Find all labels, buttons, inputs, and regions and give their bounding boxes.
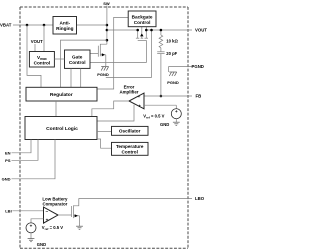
wire Gate Control to Regulator b <box>80 68 82 87</box>
svg-text:LBI: LBI <box>5 208 11 213</box>
svg-text:PS: PS <box>5 158 11 163</box>
op-amp U1 error amplifier <box>129 93 176 109</box>
svg-text:GND: GND <box>37 242 46 247</box>
svg-text:20 pF: 20 pF <box>166 51 177 56</box>
svg-text:FB: FB <box>196 94 202 99</box>
wire Vmax to Gate Control <box>54 58 64 60</box>
ground GND under LB Vref <box>28 239 35 242</box>
svg-text:Control Logic: Control Logic <box>46 126 78 132</box>
node VBAT junction 2 <box>43 24 46 27</box>
block Control Logic <box>25 117 97 140</box>
wire SW to Regulator <box>61 40 107 87</box>
block Regulator <box>26 87 97 101</box>
block Temperature Control <box>112 142 149 155</box>
transistor Q2 PMOS rectifier <box>136 27 148 41</box>
svg-text:Vref = 0.5 V: Vref = 0.5 V <box>42 225 63 231</box>
wire SW rail to PMOS left terminal <box>107 29 138 31</box>
svg-text:−: − <box>138 94 141 99</box>
node VOUT tap junction <box>150 29 153 32</box>
node resistor top junction <box>160 29 163 32</box>
wire Anti-Ringing output to SW <box>77 24 107 26</box>
svg-text:Gate: Gate <box>72 55 83 60</box>
wire error amp comp tap <box>97 105 134 121</box>
svg-text:PGND: PGND <box>167 80 179 85</box>
wire Vref to comparator <box>31 219 44 223</box>
wire VBAT to Vmax Control <box>43 25 45 52</box>
node VOUT internal label stub <box>34 44 36 52</box>
node PMOS right terminal junction <box>145 29 148 32</box>
transistor Q1 NMOS switch <box>90 44 107 66</box>
ground GND under Vref <box>173 122 180 125</box>
svg-text:Temperature: Temperature <box>116 144 144 149</box>
transistor Q3 LBO NMOS <box>72 198 80 226</box>
svg-text:+: + <box>175 109 178 114</box>
svg-text:+: + <box>138 103 141 108</box>
wire Backgate Control input tap <box>97 17 128 89</box>
node SW junction rail <box>106 29 109 32</box>
capacitor C1 20 pF <box>157 52 164 96</box>
svg-text:VOUT: VOUT <box>31 39 43 44</box>
block Anti-Ringing <box>53 17 77 35</box>
svg-text:Backgate: Backgate <box>132 14 153 19</box>
svg-text:Regulator: Regulator <box>50 92 73 98</box>
wire PMOS gate to Gate Control <box>90 40 146 62</box>
block Backgate Control <box>128 11 156 27</box>
wire VOUT rail <box>146 29 192 31</box>
svg-text:Vref = 0.5 V: Vref = 0.5 V <box>143 114 164 120</box>
block Gate Control <box>65 50 91 68</box>
voltage source Vref 0.5V low battery <box>26 223 36 239</box>
svg-text:EN: EN <box>5 150 11 155</box>
node SW junction anti-ringing <box>106 24 109 27</box>
pin GND <box>12 140 56 179</box>
node FB junction <box>160 95 163 98</box>
wire VOUT to Regulator tap <box>106 30 152 77</box>
svg-text:Amplifier: Amplifier <box>119 89 138 94</box>
wire comparator output <box>58 214 72 216</box>
svg-text:LBO: LBO <box>195 196 205 201</box>
wire Regulator to Control Logic <box>55 101 57 117</box>
svg-text:−: − <box>45 209 48 214</box>
svg-text:Control: Control <box>69 60 86 65</box>
svg-text:+: + <box>30 223 33 228</box>
block Vmax Control <box>29 52 54 68</box>
node VBAT junction 1 <box>26 24 29 27</box>
ground under LBO NMOS <box>76 226 83 229</box>
svg-text:Control: Control <box>134 20 151 25</box>
wire Control Logic to Temperature Control <box>97 139 112 148</box>
comparator U2 low battery <box>44 207 59 223</box>
svg-text:GND: GND <box>2 176 11 181</box>
svg-text:VOUT: VOUT <box>195 27 207 32</box>
wire error amp output <box>92 101 129 117</box>
svg-text:PGND: PGND <box>97 72 109 77</box>
svg-text:Control: Control <box>122 149 138 154</box>
wire Gate Control to Regulator a <box>70 68 72 87</box>
pin VBAT <box>13 24 53 26</box>
svg-text:Control: Control <box>34 61 51 66</box>
ground PGND under NMOS <box>101 67 108 71</box>
wire VBAT to Regulator <box>27 25 41 87</box>
IC boundary dashed border <box>20 7 188 248</box>
svg-text:+: + <box>46 217 49 222</box>
svg-text:SW: SW <box>103 1 110 6</box>
pin PGND <box>169 67 192 72</box>
pin EN <box>12 140 32 153</box>
pin SW <box>106 6 108 45</box>
node PMOS left terminal junction <box>136 29 139 32</box>
pin PS <box>12 140 39 161</box>
pin LBO <box>79 197 192 199</box>
block Oscillator <box>112 126 149 135</box>
svg-text:VBAT: VBAT <box>0 23 12 28</box>
svg-text:Anti-: Anti- <box>59 20 70 25</box>
wire Control Logic to Oscillator <box>97 131 112 133</box>
svg-text:Ringing: Ringing <box>56 26 74 31</box>
voltage source Vref 0.5V error amp <box>171 109 181 123</box>
node SW junction regulator wire <box>106 39 109 42</box>
svg-text:Oscillator: Oscillator <box>119 129 141 134</box>
svg-text:Comparator: Comparator <box>42 201 67 206</box>
svg-text:GND: GND <box>160 122 169 127</box>
pin FB <box>144 95 192 97</box>
svg-text:PGND: PGND <box>192 64 204 69</box>
ground PGND right <box>169 72 176 76</box>
svg-text:10 kΩ: 10 kΩ <box>166 38 178 43</box>
pin LBI <box>12 210 43 212</box>
resistor R1 10 kOhm <box>159 30 163 52</box>
